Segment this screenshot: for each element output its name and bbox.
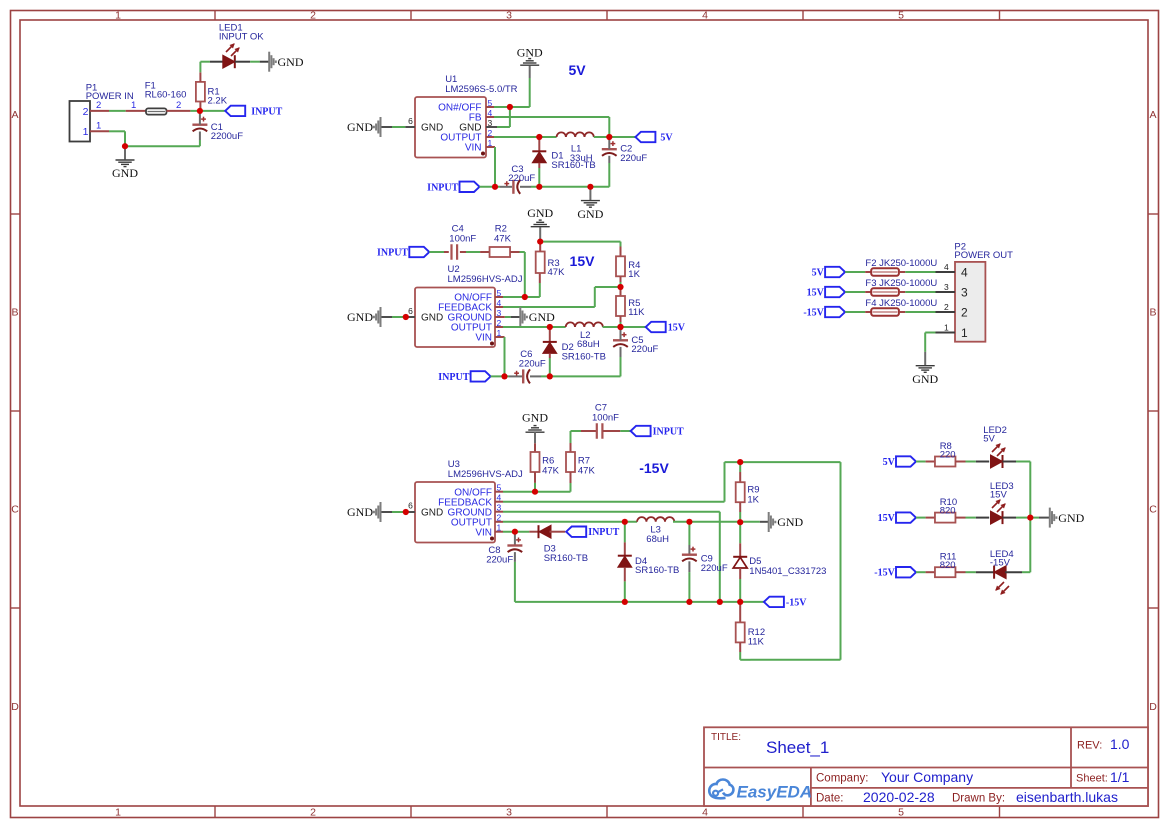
svg-text:INPUT OK: INPUT OK: [219, 32, 264, 43]
svg-text:220: 220: [940, 449, 956, 460]
svg-text:1.0: 1.0: [1110, 736, 1130, 752]
svg-text:GND: GND: [777, 515, 803, 529]
svg-text:Date:: Date:: [816, 793, 844, 805]
svg-text:GND: GND: [527, 206, 553, 220]
svg-text:2: 2: [944, 302, 949, 312]
svg-text:2: 2: [961, 305, 968, 319]
svg-text:B: B: [11, 307, 18, 319]
svg-text:-15V: -15V: [639, 460, 669, 476]
svg-text:-15V: -15V: [786, 597, 807, 608]
svg-text:B: B: [1149, 307, 1156, 319]
svg-text:220uF: 220uF: [701, 563, 728, 574]
svg-text:2.2K: 2.2K: [208, 96, 228, 107]
svg-text:1: 1: [944, 323, 949, 333]
svg-text:POWER IN: POWER IN: [86, 91, 134, 102]
svg-text:1K: 1K: [628, 269, 640, 280]
svg-text:GND: GND: [522, 411, 548, 425]
svg-text:1: 1: [115, 10, 121, 22]
svg-text:220uF: 220uF: [631, 344, 658, 355]
svg-text:SR160-TB: SR160-TB: [562, 351, 606, 362]
svg-text:SR160-TB: SR160-TB: [635, 565, 679, 576]
svg-text:4: 4: [702, 806, 708, 818]
svg-text:Your Company: Your Company: [881, 769, 973, 785]
svg-text:GND: GND: [347, 310, 373, 324]
svg-text:15V: 15V: [878, 513, 896, 524]
svg-text:820: 820: [940, 505, 956, 516]
svg-text:REV:: REV:: [1077, 740, 1102, 752]
svg-text:68uH: 68uH: [577, 339, 600, 350]
svg-text:2: 2: [96, 100, 101, 111]
svg-text:1: 1: [115, 806, 121, 818]
svg-text:SR160-TB: SR160-TB: [544, 553, 588, 564]
svg-text:GND: GND: [421, 313, 443, 324]
svg-text:5V: 5V: [660, 133, 673, 144]
svg-text:1/1: 1/1: [1110, 769, 1130, 785]
svg-text:-15V: -15V: [990, 558, 1011, 569]
svg-text:47K: 47K: [494, 233, 512, 244]
svg-text:F3 JK250-1000U: F3 JK250-1000U: [865, 278, 937, 289]
svg-text:GND: GND: [347, 120, 373, 134]
svg-text:5V: 5V: [812, 268, 825, 279]
svg-text:GND: GND: [421, 507, 443, 518]
svg-text:RL60-160: RL60-160: [145, 90, 187, 101]
svg-text:C: C: [1149, 504, 1157, 516]
svg-text:1: 1: [131, 100, 136, 111]
svg-text:4: 4: [961, 265, 968, 279]
svg-text:INPUT: INPUT: [427, 182, 458, 193]
svg-text:VIN: VIN: [475, 527, 492, 538]
svg-text:-15V: -15V: [803, 308, 824, 319]
svg-text:eisenbarth.lukas: eisenbarth.lukas: [1016, 789, 1118, 805]
svg-text:3: 3: [961, 285, 968, 299]
svg-text:3: 3: [506, 806, 512, 818]
svg-text:INPUT: INPUT: [438, 372, 469, 383]
svg-text:2: 2: [83, 106, 89, 118]
svg-text:11K: 11K: [748, 637, 765, 648]
svg-text:220uF: 220uF: [508, 173, 535, 184]
svg-text:GND: GND: [912, 372, 938, 386]
svg-text:1: 1: [96, 120, 101, 131]
svg-text:100nF: 100nF: [449, 233, 476, 244]
svg-text:Company:: Company:: [816, 773, 868, 785]
svg-text:5: 5: [898, 10, 904, 22]
svg-text:C: C: [11, 504, 19, 516]
svg-text:2: 2: [310, 806, 316, 818]
svg-text:SR160-TB: SR160-TB: [551, 160, 595, 171]
svg-text:11K: 11K: [628, 307, 645, 318]
svg-text:5V: 5V: [568, 62, 586, 78]
svg-text:VIN: VIN: [475, 333, 492, 344]
svg-text:47K: 47K: [548, 267, 566, 278]
svg-text:Sheet:: Sheet:: [1076, 773, 1108, 785]
svg-text:LM2596S-5.0/TR: LM2596S-5.0/TR: [445, 84, 517, 95]
svg-text:4: 4: [702, 10, 708, 22]
svg-text:15V: 15V: [668, 323, 686, 334]
svg-text:Drawn By:: Drawn By:: [952, 793, 1005, 805]
svg-text:EasyEDA: EasyEDA: [737, 783, 813, 802]
svg-text:220uF: 220uF: [620, 153, 647, 164]
svg-text:5: 5: [898, 806, 904, 818]
svg-text:VIN: VIN: [465, 143, 482, 154]
svg-text:68uH: 68uH: [646, 534, 669, 545]
svg-text:INPUT: INPUT: [653, 427, 684, 438]
svg-text:-15V: -15V: [874, 568, 895, 579]
svg-text:LM2596HVS-ADJ: LM2596HVS-ADJ: [448, 274, 523, 285]
svg-text:1: 1: [961, 326, 968, 340]
svg-text:GND: GND: [1058, 511, 1084, 525]
svg-text:1N5401_C331723: 1N5401_C331723: [749, 566, 826, 577]
svg-text:POWER OUT: POWER OUT: [954, 250, 1013, 261]
svg-text:6: 6: [408, 306, 413, 316]
svg-text:47K: 47K: [542, 466, 560, 477]
svg-text:5V: 5V: [983, 434, 995, 445]
svg-text:1: 1: [83, 126, 89, 138]
svg-text:15V: 15V: [570, 253, 596, 269]
svg-text:15V: 15V: [807, 288, 825, 299]
svg-text:LM2596HVS-ADJ: LM2596HVS-ADJ: [448, 469, 523, 480]
svg-text:Sheet_1: Sheet_1: [766, 738, 829, 757]
svg-text:GND: GND: [517, 45, 543, 59]
svg-text:15V: 15V: [990, 490, 1008, 501]
svg-text:A: A: [11, 109, 18, 121]
svg-text:F4 JK250-1000U: F4 JK250-1000U: [865, 298, 937, 309]
svg-text:3: 3: [506, 10, 512, 22]
svg-text:D: D: [1149, 701, 1157, 713]
svg-text:INPUT: INPUT: [251, 106, 282, 117]
svg-text:6: 6: [408, 501, 413, 511]
svg-text:2: 2: [310, 10, 316, 22]
svg-text:GND: GND: [278, 55, 304, 69]
svg-text:220uF: 220uF: [486, 555, 513, 566]
svg-text:GND: GND: [577, 207, 603, 221]
svg-text:3: 3: [944, 282, 949, 292]
svg-text:GND: GND: [421, 123, 443, 134]
svg-text:1K: 1K: [747, 494, 759, 505]
svg-text:GND: GND: [459, 123, 481, 134]
svg-text:INPUT: INPUT: [377, 248, 408, 259]
svg-text:A: A: [1149, 109, 1156, 121]
svg-text:F2 JK250-1000U: F2 JK250-1000U: [865, 258, 937, 269]
svg-text:GND: GND: [529, 310, 555, 324]
svg-text:GND: GND: [347, 505, 373, 519]
svg-text:TITLE:: TITLE:: [711, 732, 741, 743]
svg-text:47K: 47K: [578, 466, 596, 477]
svg-text:2020-02-28: 2020-02-28: [863, 789, 935, 805]
svg-text:5V: 5V: [883, 457, 896, 468]
svg-text:2: 2: [176, 100, 181, 111]
svg-text:INPUT: INPUT: [588, 527, 619, 538]
svg-text:6: 6: [408, 116, 413, 126]
svg-text:GND: GND: [112, 166, 138, 180]
svg-text:4: 4: [944, 262, 949, 272]
svg-text:2200uF: 2200uF: [211, 131, 243, 142]
svg-text:820: 820: [940, 560, 956, 571]
svg-text:D: D: [11, 701, 19, 713]
svg-text:220uF: 220uF: [519, 358, 546, 369]
svg-text:100nF: 100nF: [592, 412, 619, 423]
